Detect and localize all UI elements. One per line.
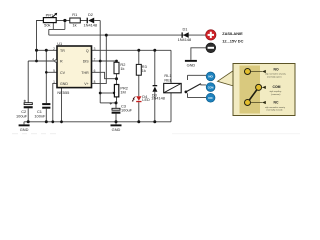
svg-text:12...15V DC: 12...15V DC — [222, 38, 243, 43]
svg-text:NE555: NE555 — [57, 90, 69, 95]
wire: TR vertical down to R row — [36, 50, 38, 61]
wire: riser loop to +V rail — [48, 29, 50, 35]
svg-text:1k: 1k — [72, 22, 76, 27]
relay contact info panel — [218, 64, 296, 116]
wire: CV/C1 vertical from TR row to CV row — [45, 50, 47, 72]
diode D2 1N4148 — [83, 12, 97, 27]
wire: TR row to IC pin 2 — [37, 49, 58, 51]
wire: PR2 wiper line — [100, 92, 113, 94]
node Q-D3 junction — [153, 49, 156, 52]
wire: D3 top drop from Q row — [154, 50, 156, 85]
panel armature — [248, 87, 259, 102]
svg-text:CV: CV — [60, 71, 66, 75]
contact NC in panel — [245, 100, 251, 106]
wire: C3 ground drop — [115, 122, 117, 125]
svg-text:GND: GND — [60, 82, 68, 86]
svg-text:NO: NO — [274, 67, 279, 71]
wire: C1 bottom to ground bus — [45, 109, 47, 122]
node DIS junction — [99, 60, 102, 63]
terminal NC — [206, 93, 215, 102]
wire: D2 to drop column — [94, 20, 100, 22]
svg-text:styk normalnie otwarty: styk normalnie otwarty — [265, 73, 287, 76]
wire: PR1 to R1 — [56, 20, 70, 22]
svg-text:styk wspólny: styk wspólny — [270, 90, 283, 93]
node TR-R junction — [35, 60, 38, 63]
svg-text:7: 7 — [94, 57, 96, 61]
svg-text:100uF: 100uF — [16, 114, 28, 119]
node bus-LED junction — [137, 120, 140, 123]
svg-text:3: 3 — [94, 47, 96, 51]
svg-text:2: 2 — [53, 47, 55, 51]
svg-text:D2: D2 — [88, 12, 93, 17]
wire: loop to top wire junction — [64, 21, 66, 30]
svg-text:8: 8 — [94, 80, 96, 84]
node CV-C1 junction — [45, 71, 48, 74]
wire: GND pin 1 stub and drop to bus — [53, 83, 57, 121]
wire: CV row into IC pin 5 — [46, 71, 57, 73]
contact COM in panel — [256, 84, 262, 90]
wire: minus terminal to ground — [191, 48, 206, 60]
svg-text:5: 5 — [53, 69, 55, 73]
wire: R1 to D2 — [80, 20, 87, 22]
leader NO — [251, 71, 263, 73]
wire: relay drop down to coil — [170, 50, 172, 83]
node rail V+ junction — [105, 34, 108, 37]
node R2 top junction — [115, 60, 118, 63]
wire: THR stub link down to R2/PR2 junction — [92, 72, 117, 78]
node bus-C1 junction — [45, 120, 48, 123]
resistor R1 — [70, 12, 81, 27]
svg-text:1M: 1M — [120, 90, 125, 95]
svg-text:PR1: PR1 — [46, 12, 54, 17]
svg-text:R: R — [60, 60, 63, 64]
node bus-C3 junction — [115, 120, 118, 123]
svg-text:6: 6 — [94, 69, 96, 73]
svg-text:U1: U1 — [57, 41, 62, 46]
node C3 top junction — [115, 101, 118, 104]
wire: R2 bottom to PR2 top — [116, 74, 118, 85]
ground (left, under bus end) — [19, 124, 30, 132]
LED D4 — [132, 94, 150, 102]
capacitor C3 100uF — [110, 102, 133, 113]
node bus-GND pin junction — [51, 120, 54, 123]
svg-text:100uF: 100uF — [121, 107, 133, 112]
svg-text:THR: THR — [81, 71, 89, 75]
leader COM — [261, 86, 264, 88]
wire: C2 bottom to ground bus — [27, 108, 29, 122]
svg-text:COM: COM — [273, 85, 281, 89]
node Q-R3 junction — [137, 49, 140, 52]
svg-text:D1: D1 — [183, 26, 188, 31]
svg-text:R1: R1 — [72, 12, 77, 17]
capacitor C2 100uF — [16, 100, 33, 119]
svg-text:4: 4 — [52, 57, 54, 61]
diode D3 1N4148 — [151, 85, 165, 100]
wire: D3 bottom to bus — [154, 92, 156, 122]
svg-text:1k: 1k — [142, 68, 146, 73]
wire: LED bottom to bus — [138, 102, 140, 122]
ground (supply minus) — [185, 60, 197, 68]
plus supply terminal — [206, 30, 216, 40]
wire: bus left end ground drop — [23, 122, 25, 125]
node armature pivot — [185, 91, 188, 94]
svg-text:REL: REL — [164, 78, 172, 83]
svg-text:NO: NO — [208, 75, 213, 79]
svg-text:(normally closed): (normally closed) — [267, 109, 283, 112]
terminal COM — [206, 83, 215, 92]
junction dots — [27, 19, 157, 123]
wire: V+ stub up to rail — [92, 35, 107, 83]
svg-text:GND: GND — [20, 127, 29, 132]
relay coil RL1 — [164, 73, 182, 93]
wire: NO contact line — [188, 75, 207, 80]
wire: R row from C2 column to reset bubble — [28, 60, 55, 62]
node bus-IC bottom junction — [60, 120, 63, 123]
svg-text:100nF: 100nF — [34, 114, 46, 119]
wire: DIS column lower segment — [99, 61, 101, 103]
panel balloon tail — [218, 71, 234, 87]
svg-text:TR: TR — [60, 49, 65, 53]
potentiometer PR2 — [113, 85, 128, 97]
resistor R3 — [136, 64, 146, 75]
potentiometer PR1 — [43, 12, 57, 27]
node bus-C2 junction — [27, 120, 30, 123]
svg-text:(normally open): (normally open) — [267, 75, 282, 78]
wire: C2 column down to C2 top — [27, 61, 29, 103]
wire: bus upturn to relay coil bottom — [170, 93, 172, 122]
svg-text:Q: Q — [86, 49, 89, 53]
svg-text:GND: GND — [187, 63, 196, 68]
wire: IC bottom drop to bus — [61, 88, 63, 122]
diode D1 1N4148 — [178, 26, 192, 42]
minus supply terminal — [206, 43, 216, 53]
svg-text:V+: V+ — [84, 82, 89, 86]
wire: R3 bottom to LED top — [138, 75, 140, 96]
relay switch contacts — [188, 75, 207, 97]
node wiper tap junction — [99, 92, 102, 95]
node TR-PR1 junction — [35, 49, 38, 52]
node THR-R2-PR2 junction — [115, 77, 118, 80]
wire: DIS row extension to R2 top — [100, 61, 116, 62]
svg-text:(common): (common) — [271, 94, 281, 96]
svg-text:NC: NC — [274, 101, 279, 105]
svg-text:LED: LED — [142, 97, 150, 102]
svg-text:1N4148: 1N4148 — [83, 22, 97, 27]
svg-text:styk normalnie zwarty: styk normalnie zwarty — [265, 106, 286, 109]
svg-text:1: 1 — [53, 80, 55, 84]
svg-text:50k: 50k — [44, 22, 50, 27]
wire: link to C3 column — [100, 102, 116, 104]
wire: +V rail — [49, 34, 206, 36]
resistor R2 — [114, 62, 125, 74]
wire: ground bus — [24, 121, 171, 123]
wire: Q row from IC pin 3 to relay drop — [92, 49, 172, 51]
wire: PR1 wiper drop — [52, 22, 54, 29]
wire: NC contact line — [188, 93, 207, 97]
wire: C1 column down to C1 top — [45, 72, 47, 103]
switch armature — [186, 84, 201, 92]
terminal NO — [206, 72, 215, 81]
wire: riser from TR node up to PR1 left — [37, 21, 44, 51]
wire: R3 top drop — [138, 50, 140, 64]
ground (under C3) — [111, 124, 122, 132]
svg-text:1k: 1k — [120, 66, 124, 71]
svg-text:COM: COM — [208, 86, 214, 89]
IC U1 NE555 timer — [52, 41, 95, 95]
svg-text:DIS: DIS — [83, 60, 90, 64]
node wiper loop junction — [63, 19, 66, 22]
node TR-CV junction — [45, 49, 48, 52]
svg-text:GND: GND — [112, 127, 121, 132]
capacitor C1 100nF — [34, 103, 50, 118]
svg-text:ZASILANIE: ZASILANIE — [222, 31, 243, 36]
wire: DIS row stub — [92, 60, 101, 62]
wire: wiper loop bottom — [49, 28, 65, 30]
svg-text:1N4148: 1N4148 — [151, 95, 165, 100]
wire: COM link — [201, 83, 206, 86]
wire: D2 drop down to DIS row — [99, 21, 101, 62]
wire: PR2 bottom to C3 junction — [115, 97, 118, 108]
node bus-D3 junction — [153, 120, 156, 123]
leader NC — [251, 102, 263, 104]
contact NO in panel — [245, 69, 251, 75]
wire: C3 bottom to bus — [115, 114, 117, 122]
svg-text:1N4148: 1N4148 — [178, 37, 192, 42]
